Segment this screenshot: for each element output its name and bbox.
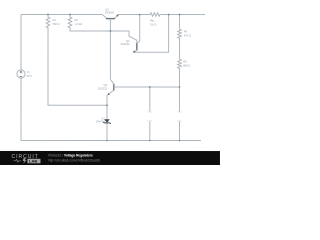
node junction xyxy=(168,14,170,16)
wire R1 top stub xyxy=(47,14,49,16)
transistor Q3 error amp xyxy=(107,79,119,95)
voltage source V1 xyxy=(17,70,25,78)
svg-text:http://circuitlab.com/c/45bab2: http://circuitlab.com/c/45bab22bac66 xyxy=(48,159,100,163)
svg-text:1.2 kΩ: 1.2 kΩ xyxy=(75,22,83,26)
wire Q3 emitter down xyxy=(106,95,108,105)
node junction xyxy=(179,140,181,142)
svg-text:2N3055: 2N3055 xyxy=(105,10,115,14)
svg-text:0.6 Ω: 0.6 Ω xyxy=(150,22,156,26)
wire zener top lead xyxy=(106,105,108,119)
wire C2 bottom to rail xyxy=(178,121,180,140)
svg-text:2N2222: 2N2222 xyxy=(121,42,131,46)
svg-text:R1: R1 xyxy=(53,18,57,22)
wire R2 bottom to Q2 base xyxy=(70,27,137,43)
node junction xyxy=(110,30,112,32)
zener diode D1 xyxy=(103,119,110,124)
wire C1 bottom lead xyxy=(149,121,151,140)
wire divider top lead xyxy=(179,15,181,29)
node junction xyxy=(69,14,71,16)
svg-text:2N2222: 2N2222 xyxy=(98,86,108,90)
wire Q2 emitter to output node xyxy=(133,15,169,53)
wire R1 bottom to zener node xyxy=(48,27,107,105)
wire Q3 base to divider tap xyxy=(119,86,180,88)
resistor R5 xyxy=(178,59,182,69)
wire C1 top lead xyxy=(149,87,151,112)
svg-text:/Torres12 / Voltage Regulators: /Torres12 / Voltage Regulators xyxy=(48,154,93,158)
node junction xyxy=(47,14,49,16)
wire R5 bottom to tap xyxy=(178,69,180,87)
label Q2 xyxy=(121,39,131,46)
label Q3 xyxy=(98,83,108,90)
wire zener bottom lead xyxy=(106,123,108,140)
wire rail after Rsc xyxy=(160,14,205,16)
node junction xyxy=(139,14,141,16)
node junction xyxy=(179,14,181,16)
footer bar xyxy=(0,151,220,165)
svg-text:LAB: LAB xyxy=(29,158,37,163)
capacitor C1 xyxy=(147,112,152,121)
resistor R4 xyxy=(178,29,182,39)
label R4 value xyxy=(184,30,191,38)
label D1 value xyxy=(96,117,106,124)
wire Q2 collector up to rail xyxy=(139,15,141,41)
node junction xyxy=(149,140,151,142)
node junction xyxy=(179,86,181,88)
wire R2 top stub xyxy=(69,14,71,16)
label R2 value xyxy=(75,18,83,26)
node junction xyxy=(149,86,151,88)
footer CircuitLab logo xyxy=(11,154,40,164)
label R5 value xyxy=(183,60,190,68)
wire bottom ground rail xyxy=(21,139,201,141)
wire V1 bottom lead xyxy=(20,78,22,140)
svg-text:20 V: 20 V xyxy=(27,74,33,78)
svg-text:560 Ω: 560 Ω xyxy=(53,22,60,26)
svg-text:680 Ω: 680 Ω xyxy=(183,63,190,67)
svg-text:V1: V1 xyxy=(27,70,31,74)
svg-text:470 Ω: 470 Ω xyxy=(184,33,191,37)
wire tap down to C2 xyxy=(178,87,180,112)
transistor Q1 pass xyxy=(103,14,119,21)
label Rsc value xyxy=(150,19,156,27)
svg-text:Rsc: Rsc xyxy=(150,19,155,23)
label V1 value xyxy=(27,70,33,78)
node junction xyxy=(106,140,108,142)
wire Q1 emitter rail xyxy=(119,14,150,16)
transistor Q2 current limit xyxy=(133,41,140,53)
footer link text xyxy=(48,154,100,163)
wire Q1 base down to Q3 collector xyxy=(109,19,111,79)
svg-text:R5: R5 xyxy=(183,60,187,64)
wire between R4 and R5 xyxy=(179,39,181,59)
svg-text:R4: R4 xyxy=(184,30,188,34)
capacitor C2 xyxy=(177,112,182,121)
resistor Rsc current sense xyxy=(150,13,161,17)
wire input top rail xyxy=(21,13,103,15)
label R1 value xyxy=(53,18,60,26)
resistor R2 xyxy=(68,17,72,29)
label Q1 xyxy=(105,7,115,14)
wire V1 top lead xyxy=(20,14,22,69)
node junction xyxy=(106,104,108,106)
svg-text:1N4734: 1N4734 xyxy=(96,120,106,124)
resistor R1 xyxy=(46,17,50,29)
svg-text:R2: R2 xyxy=(75,18,79,22)
